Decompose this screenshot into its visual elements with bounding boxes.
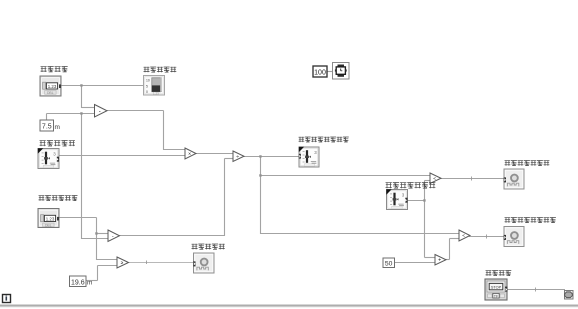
greater-equal node [117,257,129,268]
CMP2 subtract node [108,230,120,242]
while loop iteration terminal i [3,295,11,303]
svg-text:TF: TF [494,294,498,298]
slider control: boron concentration low limit setting [386,189,407,209]
label: spent fuel pool [144,67,177,73]
svg-text:m: m [87,280,92,287]
wire: initial boron conc to multiply [58,155,185,157]
wire: 100 constant to wait function [327,71,333,73]
wire: 7.5 constant to subtract, branch down to CMP2 [47,112,109,239]
svg-text:1.23: 1.23 [46,216,55,221]
while loop bottom border [0,305,578,307]
LED indicator: refill nearly full light [193,253,214,273]
slider control: initial boron concentration [38,148,59,168]
numeric control: initial liquid level [40,76,61,96]
wire: less-than1 out to low-limit alarm LED [440,177,505,181]
svg-text:0: 0 [146,90,148,94]
wire: 50 constant to add [394,262,435,264]
svg-text:DBL: DBL [45,223,52,227]
label: target liquid level setting [39,195,78,201]
constant 7.5 [40,120,54,131]
constant 100 [313,66,327,77]
add node [435,255,446,266]
constant 19.6 [70,276,87,287]
svg-text:5: 5 [146,84,148,88]
label: below low-limit alarm light [505,160,550,166]
label: near low-limit pre-alarm light [505,217,556,223]
svg-text:19.6: 19.6 [71,279,85,286]
wire: 19.6 constant to GE bottom [86,266,117,281]
label: boron concentration low limit setting [386,182,436,188]
wire: initial level to pool tank [60,84,144,108]
subtract node [95,105,108,118]
svg-text:+: + [438,258,441,264]
divide node [233,151,244,162]
multiply node [185,148,196,159]
wire: CMP2 out up to divide bottom [119,159,233,237]
svg-text:10: 10 [146,78,150,82]
LED indicator: below low-limit alarm light [504,169,524,189]
svg-text:STOP: STOP [491,286,502,290]
wire: boolean GE out to refill LED (dashed) [128,261,194,265]
svg-text:÷: ÷ [236,154,239,160]
svg-text:<: < [433,176,436,182]
numeric control: target liquid level setting [38,209,59,228]
wire: multiply out to divide top [195,153,233,155]
svg-text:m: m [55,124,60,131]
wire: add out to second less-than [445,239,459,260]
svg-text:7.5: 7.5 [42,124,52,131]
wire: stop button to loop condition [506,288,565,292]
svg-text:50: 50 [385,260,393,267]
svg-text:DBL: DBL [47,91,54,95]
wire: less-than2 out to pre-alarm LED [469,235,505,239]
less-than node 2 [459,230,470,241]
wait ms function icon [333,63,350,80]
less-than node 1 [430,173,441,184]
LED indicator: near low-limit pre-alarm light [504,227,524,247]
constant 50 [383,258,395,268]
stop button: exit program [485,279,507,300]
svg-text:×: × [188,151,191,157]
wire: subtract out to multiply top [107,111,185,151]
loop condition terminal (stop sign) [565,291,574,300]
svg-text:<: < [462,233,465,239]
label: exit program [486,270,512,276]
wire: boron low limit setting to less-than and add [407,181,435,258]
label: initial liquid level [41,66,68,72]
svg-text:1.23: 1.23 [153,92,159,96]
tank indicator: spent fuel pool [144,76,165,96]
svg-text:100: 100 [314,70,326,77]
wire: divide out to target boron indicator with branches [243,155,459,234]
label: refill nearly full light [192,244,225,250]
svg-text:-: - [99,109,101,115]
svg-text:1.23: 1.23 [48,84,57,89]
wire: target level setting branch to CMP2 and GE [58,218,117,261]
slider indicator: target boron concentration computed [299,147,319,167]
label: initial boron concentration [40,140,76,146]
label: target boron concentration computed value [299,137,349,143]
svg-text:-: - [112,234,114,240]
